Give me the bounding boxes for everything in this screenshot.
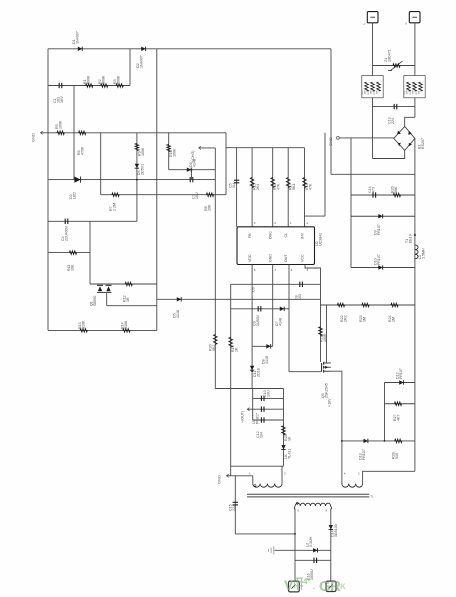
svg-text:ZD18: ZD18 <box>257 368 261 377</box>
svg-text:3.3UH: 3.3UH <box>309 536 313 547</box>
resistor R22 <box>337 303 344 307</box>
wire pin6 drop <box>288 265 290 372</box>
wire bank bus y148 <box>226 147 305 149</box>
wire y330 <box>48 329 157 331</box>
svg-text:VCC: VCC <box>300 254 304 262</box>
svg-text:PC817: PC817 <box>256 413 260 424</box>
resistor R10 <box>167 144 171 151</box>
svg-text:T1: T1 <box>370 495 374 499</box>
wire y216 jog <box>305 215 326 217</box>
wire bank drop3 <box>272 148 274 227</box>
resistor R19 <box>229 337 233 347</box>
svg-text:EE19: EE19 <box>409 234 413 243</box>
svg-text:OSC: OSC <box>269 231 273 239</box>
wire x384 <box>384 383 386 441</box>
wire y550 <box>275 549 331 551</box>
resistor R13 <box>80 329 87 333</box>
wire y267 <box>351 267 415 269</box>
RN1 resistors <box>365 82 369 91</box>
wire source <box>331 371 342 484</box>
svg-text:560K: 560K <box>117 75 121 84</box>
wire y138 <box>339 137 394 139</box>
wire top bus y49 <box>48 48 331 50</box>
svg-text:2.2M: 2.2M <box>113 203 117 211</box>
wire y253 <box>48 252 90 254</box>
wire Q1 source <box>106 293 108 306</box>
resistor R5 <box>57 131 64 135</box>
resistor R25 <box>282 426 286 435</box>
node +OUT stub <box>247 408 249 411</box>
svg-text:4148: 4148 <box>265 356 269 364</box>
resistor R3 <box>116 84 123 88</box>
capacitor CX1 <box>373 106 415 108</box>
wire y306 <box>107 305 157 307</box>
svg-text:470K: 470K <box>81 146 85 155</box>
svg-text:1M: 1M <box>363 317 367 322</box>
resistor R21 <box>319 327 323 336</box>
svg-text:INV: INV <box>300 232 304 239</box>
svg-text:GND: GND <box>31 133 36 142</box>
resistor R2 <box>101 84 108 88</box>
wire y65 <box>373 65 415 67</box>
wire sec left <box>294 509 296 582</box>
svg-text:10U: 10U <box>267 390 271 397</box>
wire fb branch1 <box>253 397 284 399</box>
wire J2 drop <box>414 23 416 76</box>
svg-text:1U50V: 1U50V <box>256 314 260 326</box>
svg-text:TL431: TL431 <box>288 449 292 459</box>
svg-text:104: 104 <box>259 432 263 438</box>
svg-text:N: N <box>404 23 408 25</box>
wire y534 <box>235 533 295 535</box>
wire y180 <box>48 179 215 181</box>
wire y284 <box>90 283 157 285</box>
svg-text:+(OUT): +(OUT) <box>241 411 245 423</box>
wire bank drop5 <box>304 148 306 227</box>
wire x101 <box>100 133 102 195</box>
resistor R12 <box>125 282 132 286</box>
svg-text:1R: 1R <box>126 297 130 302</box>
resistor R15 <box>250 178 254 188</box>
wire HV rail <box>414 138 416 471</box>
wire bank drop4 <box>287 148 289 227</box>
diode D4 <box>135 164 139 168</box>
wire y305 <box>321 304 416 306</box>
svg-text:1M: 1M <box>392 317 396 322</box>
svg-text:10U: 10U <box>195 192 199 199</box>
ground earth <box>273 546 275 554</box>
ground GND bottom <box>227 474 229 477</box>
svg-text:224: 224 <box>391 118 395 124</box>
svg-text:510: 510 <box>395 453 399 459</box>
svg-text:4148: 4148 <box>176 310 180 318</box>
svg-text:LED: LED <box>73 192 77 199</box>
svg-text:20K: 20K <box>208 204 212 211</box>
wire gnd bus y133 <box>41 132 227 134</box>
wire fb branch3 <box>253 419 284 421</box>
capacitor C1 <box>58 83 60 88</box>
svg-text:κ: κ <box>340 581 346 592</box>
resistor R26 <box>393 193 400 197</box>
capacitor C14 <box>372 192 374 197</box>
node aux <box>341 440 343 442</box>
svg-text:G: G <box>319 578 331 595</box>
transistor Q1 <box>97 284 103 286</box>
transformer T1 secondary <box>295 503 300 506</box>
wire bank drop1 <box>236 148 238 227</box>
capacitor C16 <box>313 558 315 563</box>
wire y404 <box>385 403 415 405</box>
wire J1 drop <box>372 23 374 76</box>
svg-text:222: 222 <box>232 505 236 511</box>
wire x74 <box>73 86 75 180</box>
svg-text:GND: GND <box>328 137 333 146</box>
connector J1 <box>367 12 378 23</box>
svg-text:560K: 560K <box>87 75 91 84</box>
resistor R28 <box>395 439 402 443</box>
svg-text:UC3842: UC3842 <box>319 233 323 246</box>
svg-text:47K: 47K <box>309 183 313 190</box>
wire right branch x331 <box>330 49 332 175</box>
wire sec right <box>330 509 332 582</box>
svg-text:+(CHG): +(CHG) <box>191 151 195 163</box>
svg-text:910K: 910K <box>82 320 86 329</box>
svg-text:.: . <box>313 582 315 591</box>
connector J3 <box>289 581 300 592</box>
svg-text:+16V: +16V <box>328 398 332 407</box>
node A <box>136 179 138 181</box>
wire fb branch2 <box>247 408 283 410</box>
wire y560 <box>295 559 331 561</box>
svg-text:FR107: FR107 <box>399 368 403 379</box>
transformer T1 aux winding <box>342 484 349 487</box>
svg-text:CL: CL <box>284 233 288 238</box>
wire x253 <box>252 389 254 421</box>
wire x215 <box>214 148 216 389</box>
svg-text:6K2: 6K2 <box>212 345 216 351</box>
svg-text:2K4: 2K4 <box>256 184 260 190</box>
wire y346 <box>252 345 273 347</box>
bridge B1 <box>394 126 415 150</box>
node HV <box>414 234 416 236</box>
svg-text:GND: GND <box>269 254 273 262</box>
varistor Z1 <box>393 64 400 68</box>
capacitor C5 <box>234 179 239 181</box>
wire pin5 jog <box>305 265 321 363</box>
resistor R27 <box>394 402 401 406</box>
wire x283 <box>283 389 285 467</box>
node CHG stub <box>199 146 201 149</box>
node B <box>191 169 193 171</box>
svg-text:5K1: 5K1 <box>292 184 296 190</box>
svg-text:4*: 4* <box>303 577 311 586</box>
svg-text:GND: GND <box>217 475 222 484</box>
diode D1 <box>78 47 82 51</box>
wire x372 low <box>372 98 374 159</box>
svg-text:S8550: S8550 <box>93 296 97 306</box>
svg-text:1KV: 1KV <box>60 96 64 103</box>
wire x137 <box>136 133 138 222</box>
svg-text:100K: 100K <box>172 148 176 157</box>
diode D3 LED <box>74 177 80 183</box>
capacitor C12 <box>260 417 262 422</box>
diode D2 <box>141 47 145 51</box>
wire drain <box>326 305 328 363</box>
capacitor C10 <box>260 396 262 401</box>
resistor R20 <box>214 334 218 344</box>
wire bank drop2 <box>251 148 253 227</box>
transistor Q3 <box>321 363 323 372</box>
wire y216r <box>351 215 415 217</box>
resistor network RN2 box <box>404 76 425 98</box>
wire x231b <box>230 466 232 476</box>
diode D13 <box>364 439 368 443</box>
resistor R14 <box>123 329 130 333</box>
wire bridge jog B <box>373 150 405 158</box>
resistor R6 <box>79 131 86 135</box>
wire x157 <box>156 49 158 331</box>
diode D5 <box>177 297 181 301</box>
capacitor C8 <box>299 282 301 287</box>
wire x325 <box>324 133 326 216</box>
wire pin8 drop <box>251 265 253 389</box>
svg-text:10K: 10K <box>71 264 75 271</box>
svg-text:47K: 47K <box>277 183 281 190</box>
wire y388 <box>215 388 283 390</box>
capacitor C4 <box>64 219 66 224</box>
wire y382 <box>385 382 415 384</box>
svg-text:4K7: 4K7 <box>397 415 401 421</box>
svg-text:1.5MH: 1.5MH <box>422 248 426 259</box>
watermark <box>284 577 346 595</box>
resistor R18 <box>303 178 307 188</box>
diode D11 zener <box>250 366 254 370</box>
diode D8 <box>266 344 270 348</box>
wire x130 <box>129 49 131 86</box>
transformer T1 primary phase dot <box>254 485 256 487</box>
wire y284 <box>231 283 321 285</box>
resistor R16 <box>271 178 275 188</box>
svg-text:VDD: VDD <box>248 254 252 262</box>
wire gnd y476 <box>227 475 253 477</box>
ground GND left <box>41 131 43 134</box>
svg-text:FB: FB <box>248 233 252 238</box>
diode D14 <box>329 525 333 529</box>
connector J4 <box>326 581 336 591</box>
wire y170 <box>169 169 216 171</box>
RN2 resistors <box>407 82 411 91</box>
svg-text:910K: 910K <box>124 320 128 329</box>
capacitor C15 <box>234 476 236 534</box>
resistor R24 <box>391 303 398 307</box>
op-amp U2 box <box>237 227 315 265</box>
svg-text:C6: C6 <box>252 287 256 292</box>
svg-text:FR107: FR107 <box>362 449 366 460</box>
svg-text:1K: 1K <box>235 347 239 352</box>
svg-text:10D471: 10D471 <box>388 49 392 62</box>
wire x231 <box>230 284 232 466</box>
wire x415 low <box>414 98 416 118</box>
resistor R9 <box>135 143 139 150</box>
diode D9 <box>378 214 382 218</box>
wire x226 <box>225 133 227 195</box>
transformer T1 primary <box>252 476 254 484</box>
svg-text:560K: 560K <box>102 75 106 84</box>
svg-text:V: V <box>284 577 294 593</box>
diode U4 TL431 <box>281 445 285 449</box>
svg-text:2R2: 2R2 <box>344 315 348 322</box>
resistor R17 <box>286 178 290 188</box>
svg-text:100K: 100K <box>141 147 145 156</box>
wire y195 <box>101 194 226 196</box>
wire y441 <box>342 440 415 442</box>
resistor R8 <box>206 193 213 197</box>
wire left rail x48 <box>47 49 49 331</box>
svg-text:56K: 56K <box>394 186 398 193</box>
svg-text:473: 473 <box>372 187 376 193</box>
wire x351 <box>350 138 352 268</box>
svg-text:OUT: OUT <box>284 254 288 262</box>
svg-text:2SK2645: 2SK2645 <box>325 383 329 398</box>
diode D15 <box>313 548 317 552</box>
connector J2 <box>409 12 420 23</box>
wire y309 <box>231 308 289 310</box>
capacitor C11 <box>260 407 262 412</box>
diode D10 <box>378 265 382 269</box>
wire x169 <box>168 133 170 170</box>
wire gate y372 <box>289 371 322 373</box>
svg-text:1000U: 1000U <box>310 569 314 580</box>
resistor R11 <box>69 251 76 255</box>
node sec <box>294 533 296 535</box>
svg-text:FR107: FR107 <box>377 254 381 265</box>
wire y86 <box>48 85 130 87</box>
transformer T1 core <box>247 493 369 495</box>
wire y221 <box>48 220 137 222</box>
svg-text:22U400V: 22U400V <box>65 225 69 241</box>
resistor R7 <box>112 193 119 197</box>
wire y466 <box>231 465 284 467</box>
capacitor C7 <box>189 177 191 182</box>
wire bridge jog R <box>405 117 415 126</box>
wire x90 <box>89 221 91 284</box>
inductor L1 <box>415 245 418 250</box>
node opto pin <box>251 370 253 372</box>
wire x191 <box>191 170 193 180</box>
svg-text:1N4007: 1N4007 <box>140 55 144 68</box>
svg-text:1U: 1U <box>232 183 236 188</box>
node gnd port circle <box>337 137 340 140</box>
wire y471 <box>363 471 415 484</box>
svg-text:103: 103 <box>298 294 302 300</box>
svg-text:1N4937: 1N4937 <box>76 31 80 44</box>
svg-text:FR107: FR107 <box>377 224 381 235</box>
svg-text:1K: 1K <box>288 436 292 441</box>
svg-text:4148: 4148 <box>279 318 283 326</box>
diode D6 <box>187 168 191 172</box>
wire y195r <box>351 194 415 196</box>
svg-text:RS207: RS207 <box>421 138 425 149</box>
diode D12 <box>399 380 403 384</box>
capacitor C9 <box>257 306 259 311</box>
wire y174 <box>331 173 415 175</box>
resistor R23 <box>362 303 369 307</box>
wire pin7 drop <box>272 265 274 347</box>
svg-text:ZD5V1: ZD5V1 <box>140 164 144 175</box>
svg-text:SB5100: SB5100 <box>334 524 338 537</box>
resistor R1 <box>86 84 93 88</box>
wire y299 <box>157 298 321 300</box>
svg-text:100K: 100K <box>59 120 63 129</box>
diode D7 <box>280 307 284 311</box>
resistor network RN1 box <box>362 76 383 98</box>
